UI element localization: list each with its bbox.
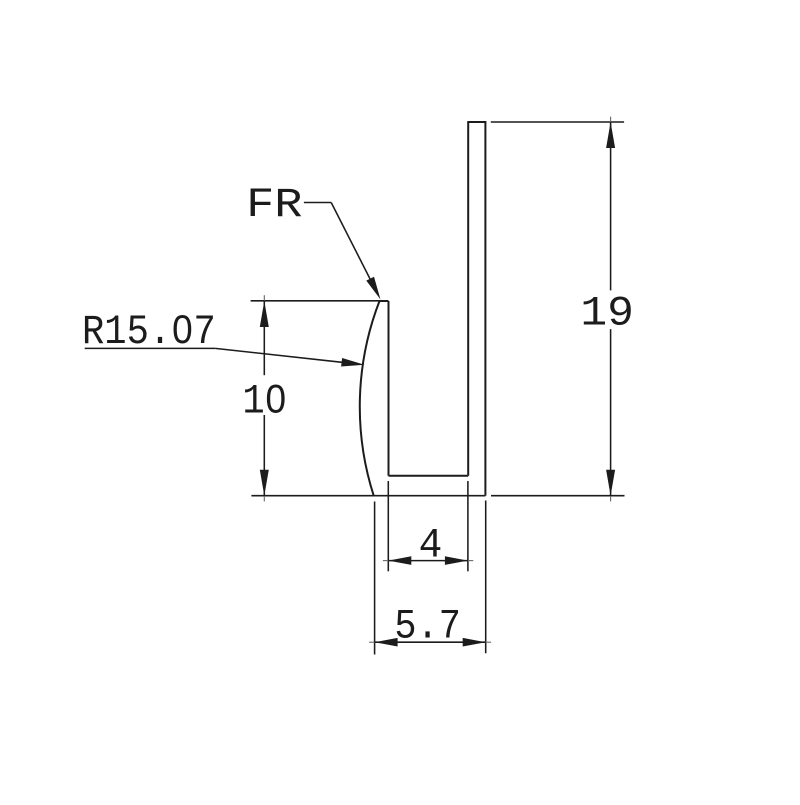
label R15.07: text (82, 308, 216, 356)
label R15.07: leader arrowhead (341, 358, 364, 367)
dim 4: right arrowhead (445, 556, 468, 565)
profile: channel inner floor (389, 475, 469, 477)
bottom extension line for dim 19 (491, 495, 625, 497)
dim 5.7: left arrowhead (375, 638, 398, 647)
dim 19: overshoot tick above top extension (610, 117, 612, 122)
dim 5.7: dimension line (375, 641, 486, 643)
dim 4: right extension line (467, 481, 469, 571)
dim 10: top extension line (251, 300, 382, 302)
dim 5.7: text label (394, 603, 461, 651)
profile: left flange right edge (388, 301, 390, 476)
svg-text:10: 10 (242, 377, 287, 425)
svg-text:5.7: 5.7 (394, 603, 461, 651)
dim 19: dimension line lower segment (610, 329, 612, 496)
dim 5.7: right arrowhead (463, 638, 486, 647)
dim 5.7: left extension line (374, 502, 376, 655)
profile: left flange arc R15.07 (360, 301, 380, 496)
dim 5.7: overshoot tick left of left extension (369, 641, 374, 643)
dim 4: left arrowhead (388, 556, 411, 565)
profile: left flange top edge (380, 300, 389, 302)
label FR: leader diagonal segment (331, 203, 377, 293)
dim 10: text label (242, 377, 287, 425)
dim 10: top arrowhead (260, 301, 269, 327)
dim 4: text label (419, 522, 443, 570)
profile: tall bar right edge (484, 122, 486, 496)
dim 19: dimension line upper segment (610, 122, 612, 290)
dim 4: overshoot tick left of left extension (383, 560, 388, 562)
dim 19: bottom arrowhead (606, 470, 615, 496)
label R15.07: underline (85, 347, 216, 349)
dim 10: overshoot tick below bottom extension (263, 496, 265, 501)
dim 5.7: overshoot tick right of right extension (486, 641, 491, 643)
dim 5.7: right extension line (485, 501, 487, 654)
label FR: leader horizontal segment (304, 202, 331, 204)
label FR: leader arrowhead (366, 277, 380, 300)
profile: tall bar left edge (467, 122, 469, 476)
dim 19: top arrowhead (606, 122, 615, 148)
svg-text:19: 19 (580, 290, 634, 338)
dim 19: text label (580, 290, 634, 338)
dim 19: overshoot tick below bottom extension (610, 496, 612, 501)
bottom line: profile bottom + extension line for dim 10 (251, 495, 485, 497)
svg-text:FR: FR (246, 181, 302, 229)
profile: tall bar top edge (467, 121, 486, 123)
dim 4: dimension line (388, 560, 468, 562)
label R15.07: leader line (215, 348, 342, 362)
dim 10: dimension line upper segment (263, 301, 265, 375)
label FR: text (246, 181, 302, 229)
dim 4: left extension line (387, 481, 389, 571)
svg-text:4: 4 (419, 522, 443, 570)
dim 10: bottom arrowhead (260, 470, 269, 496)
dim 4: overshoot tick right of right extension (468, 560, 473, 562)
dim 10: dimension line lower segment (263, 415, 265, 496)
dim 19: top extension line (491, 121, 624, 123)
dim 10: overshoot tick above top extension (263, 295, 265, 300)
